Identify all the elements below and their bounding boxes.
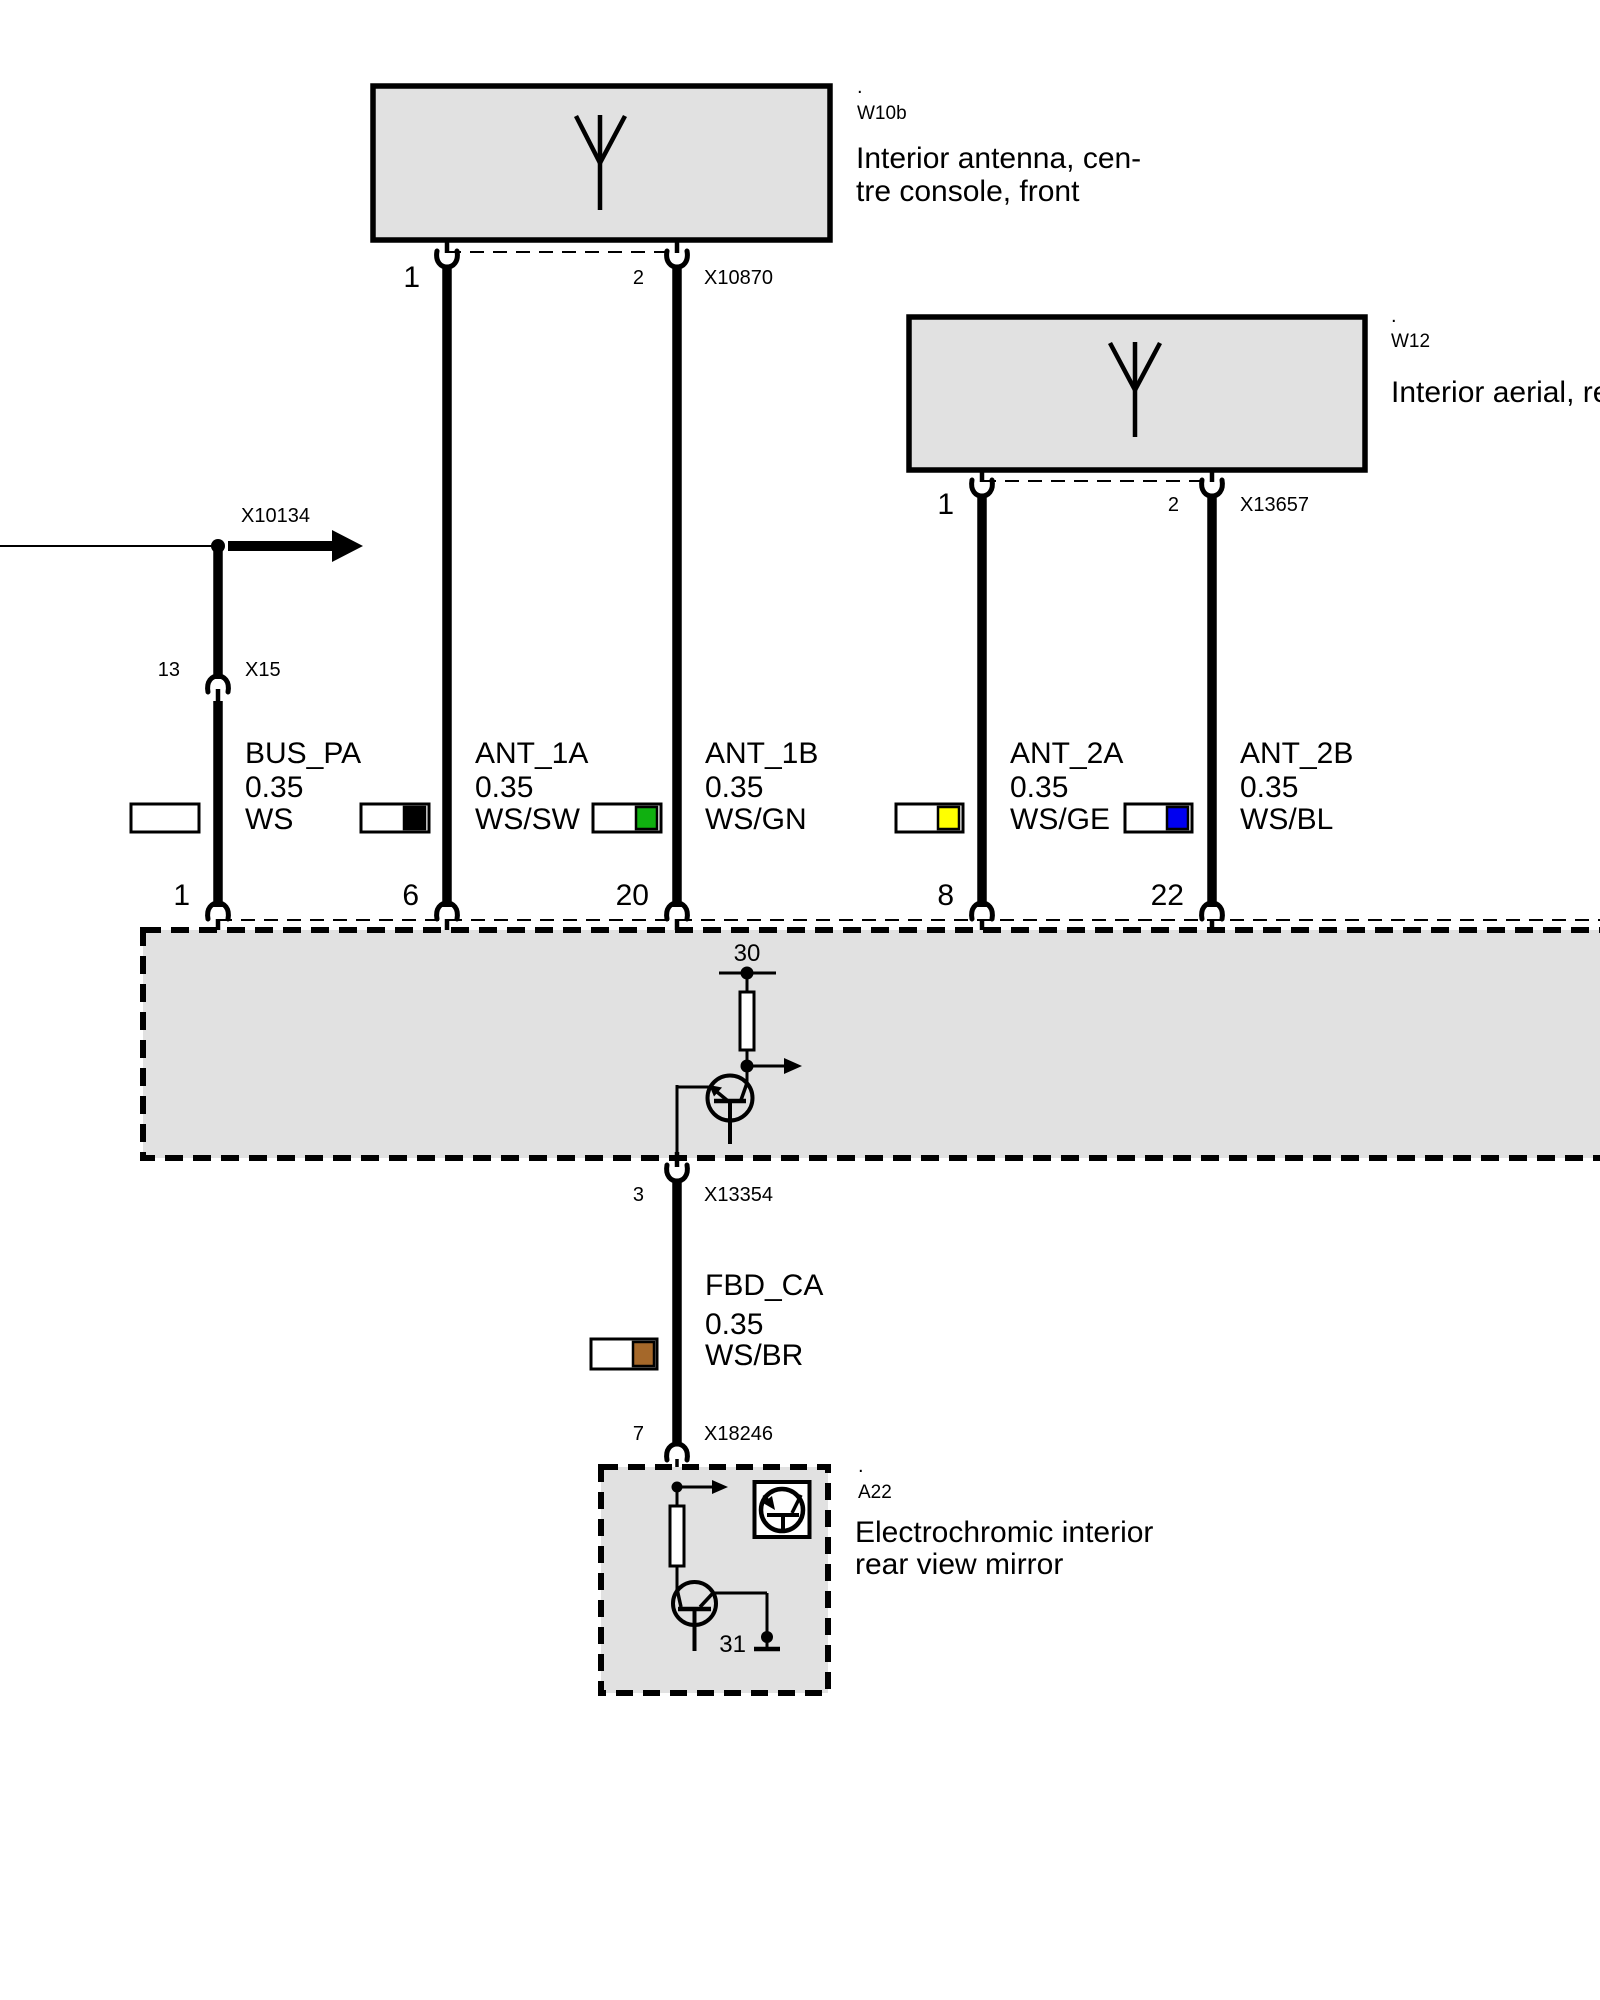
connector X13657 pin 1 [980,471,985,482]
wire Q2 base lead [712,1592,767,1595]
connector X15 socket [208,676,229,692]
resistor R1 lead top [746,973,749,992]
svg-text:X13657: X13657 [1240,494,1309,516]
svg-text:31: 31 [719,1631,746,1658]
resistor R1 lead bottom [746,1050,749,1084]
svg-text:ANT_2B: ANT_2B [1240,737,1353,770]
wire BUS_PA upper segment [213,551,223,679]
wire BUS_PA lower segment [213,701,223,907]
svg-text:X15: X15 [245,659,281,681]
connector X10870 pin 2 [675,242,680,253]
svg-text:X10134: X10134 [241,505,310,527]
svg-text:X10870: X10870 [704,267,773,289]
colour swatch WS (white) [131,804,199,832]
connector X18246 socket [667,1444,688,1460]
arrow internal (control unit) [747,1065,786,1068]
svg-text:1: 1 [403,261,420,294]
connector X13354 socket [667,1165,688,1181]
resistor R2 lead top [676,1487,679,1506]
connector X13657 dashed line [982,480,1212,482]
node junction (R1 / arrow / Q1) [741,1060,754,1073]
svg-text:.: . [857,76,863,98]
svg-text:0.35: 0.35 [1010,771,1068,804]
svg-text:rear view mirror: rear view mirror [855,1548,1063,1581]
resistor R1 [740,992,754,1050]
transistor Q1 [708,1076,753,1145]
colour swatch WS/SW (white/black) [361,804,429,832]
svg-text:22: 22 [1151,879,1184,912]
connector pin 20 (control unit) [667,903,688,919]
svg-text:3: 3 [633,1184,644,1206]
mirror icon (boxed transistor symbol) [755,1482,810,1537]
component W12 interior aerial box [909,317,1365,470]
svg-text:0.35: 0.35 [1240,771,1298,804]
connector X13657 pin 2 [1210,471,1215,482]
connector pin 1 (control unit) [208,903,229,919]
svg-text:.: . [1391,305,1397,327]
antenna symbol W12 [1110,342,1160,437]
terminal 30 rail [719,972,776,975]
svg-text:8: 8 [937,879,954,912]
svg-text:WS/GE: WS/GE [1010,803,1110,836]
wire ANT_2A [977,494,987,907]
ground terminal 31 [761,1631,773,1643]
svg-text:WS/SW: WS/SW [475,803,581,836]
svg-text:WS: WS [245,803,293,836]
svg-text:Interior aerial, rear: Interior aerial, rear [1391,376,1600,409]
svg-text:1: 1 [173,879,190,912]
arrow internal (A22) [677,1486,714,1489]
wire stub from left edge to X10134 [0,545,213,547]
svg-text:0.35: 0.35 [705,1308,763,1341]
resistor R2 lead bottom [676,1566,679,1591]
connector X10870 pin 1 [445,242,450,253]
svg-text:6: 6 [402,879,419,912]
connector X10870 dashed line [447,251,677,253]
connector X15 pin [216,689,221,702]
node terminal 30 [741,967,754,980]
svg-text:ANT_2A: ANT_2A [1010,737,1123,770]
wire Q1 base lead [677,1086,709,1089]
colour swatch WS/GE (white/yellow) [896,804,963,832]
svg-text:WS/GN: WS/GN [705,803,807,836]
svg-text:0.35: 0.35 [705,771,763,804]
svg-text:WS/BL: WS/BL [1240,803,1333,836]
wire FBD_CA [672,1179,682,1444]
svg-text:2: 2 [633,267,644,289]
svg-text:WS/BR: WS/BR [705,1339,803,1372]
svg-text:X13354: X13354 [704,1184,773,1206]
control unit connector dashed line [218,919,1600,921]
connector pin 22 (control unit) [1202,903,1223,919]
transistor Q2 [673,1582,716,1651]
connector X13354 pin (box side) [675,1152,680,1167]
connector X18246 pin (A22 side) [675,1459,679,1484]
svg-text:FBD_CA: FBD_CA [705,1269,823,1302]
svg-text:ANT_1A: ANT_1A [475,737,588,770]
resistor R2 [670,1506,684,1566]
connector pin 8 (control unit) [972,903,993,919]
svg-text:tre console, front: tre console, front [856,175,1080,208]
svg-text:W10b: W10b [857,103,907,124]
colour swatch WS/BR (white/brown) [591,1339,657,1369]
wire ANT_2B [1207,494,1217,907]
svg-text:20: 20 [616,879,649,912]
node junction A22 input [672,1482,683,1493]
arrow X10134 off-page [228,541,334,551]
wire Q1 base to pin 3 [676,1085,679,1152]
antenna symbol W10b [576,115,625,210]
svg-text:7: 7 [633,1423,644,1445]
svg-text:Interior antenna, cen-: Interior antenna, cen- [856,142,1141,175]
colour swatch WS/BL (white/blue) [1125,804,1192,832]
svg-text:Electrochromic interior: Electrochromic interior [855,1516,1153,1549]
svg-text:13: 13 [158,659,180,681]
svg-text:0.35: 0.35 [475,771,533,804]
svg-text:30: 30 [734,940,761,967]
svg-text:W12: W12 [1391,331,1430,352]
svg-text:.: . [858,1455,864,1477]
wire ANT_1B [672,265,682,907]
svg-text:A22: A22 [858,1482,892,1503]
svg-text:ANT_1B: ANT_1B [705,737,818,770]
component A22 box [601,1467,828,1693]
component W10b interior antenna box [373,86,830,240]
node X10134 junction [211,539,225,553]
svg-text:X18246: X18246 [704,1423,773,1445]
svg-text:BUS_PA: BUS_PA [245,737,361,770]
svg-text:1: 1 [937,488,954,521]
wire ANT_1A [442,265,452,907]
connector pin 6 (control unit) [437,903,458,919]
svg-text:0.35: 0.35 [245,771,303,804]
svg-text:2: 2 [1168,494,1179,516]
colour swatch WS/GN (white/green) [593,804,661,832]
control unit box (partial, clipped right) [143,930,1600,1158]
